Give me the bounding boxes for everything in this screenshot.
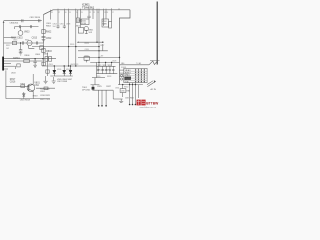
svg-text:R825: R825 bbox=[85, 56, 89, 58]
svg-text:R828: R828 bbox=[107, 76, 111, 78]
svg-text:TDA8361: TDA8361 bbox=[82, 6, 95, 10]
svg-text:R830: R830 bbox=[124, 87, 128, 89]
svg-text:Y IN: Y IN bbox=[125, 81, 129, 83]
svg-text:R813: R813 bbox=[85, 43, 89, 45]
svg-text:C812 R810: C812 R810 bbox=[30, 17, 41, 19]
svg-text:23: 23 bbox=[81, 12, 83, 14]
svg-text:R823: R823 bbox=[74, 64, 78, 66]
svg-text:BTTBW: BTTBW bbox=[146, 101, 159, 105]
svg-text:24: 24 bbox=[76, 12, 78, 14]
svg-text:C813: C813 bbox=[13, 40, 17, 42]
svg-text:TO AV: TO AV bbox=[136, 62, 142, 65]
svg-text:C816: C816 bbox=[10, 82, 16, 84]
svg-text:SAW: SAW bbox=[102, 22, 106, 25]
svg-text:22: 22 bbox=[89, 12, 91, 14]
svg-text:R812: R812 bbox=[6, 45, 10, 47]
svg-text:V806: V806 bbox=[66, 69, 70, 71]
svg-text:DPC801: DPC801 bbox=[82, 89, 91, 91]
svg-text:21: 21 bbox=[93, 12, 95, 14]
svg-text:104: 104 bbox=[53, 26, 56, 28]
svg-text:28: 28 bbox=[51, 12, 53, 14]
svg-text:V801: V801 bbox=[34, 82, 40, 84]
svg-text:C807 R808: C807 R808 bbox=[57, 81, 68, 83]
svg-text:R809: R809 bbox=[70, 44, 74, 46]
svg-text:C834: C834 bbox=[115, 88, 119, 90]
svg-text:www.bttbw.com.cn: www.bttbw.com.cn bbox=[140, 106, 156, 109]
svg-text:C818 R818: C818 R818 bbox=[20, 99, 31, 101]
svg-text:R806: R806 bbox=[25, 55, 31, 57]
svg-text:AC IN: AC IN bbox=[151, 88, 157, 91]
svg-text:SW801: SW801 bbox=[13, 57, 21, 59]
svg-text:20: 20 bbox=[97, 12, 99, 14]
svg-text:C826: C826 bbox=[85, 49, 89, 51]
svg-text:Z803: Z803 bbox=[49, 64, 53, 66]
svg-text:C808: C808 bbox=[66, 24, 70, 26]
svg-text:C818 R821: C818 R821 bbox=[40, 95, 51, 97]
svg-text:25: 25 bbox=[69, 12, 71, 14]
svg-text:KSC: KSC bbox=[34, 85, 39, 87]
svg-text:26: 26 bbox=[65, 12, 67, 14]
svg-text:C828: C828 bbox=[112, 61, 116, 63]
svg-text:R822 C819: R822 C819 bbox=[40, 99, 51, 101]
svg-text:102: 102 bbox=[6, 48, 9, 50]
svg-text:17: 17 bbox=[112, 12, 114, 14]
svg-text:47u 10u 4u7: 47u 10u 4u7 bbox=[98, 70, 109, 72]
svg-text:C805: C805 bbox=[60, 24, 64, 26]
svg-text:C813: C813 bbox=[32, 37, 38, 39]
svg-text:V803: V803 bbox=[24, 32, 30, 34]
svg-text:C809: C809 bbox=[43, 54, 49, 56]
svg-text:C806: C806 bbox=[35, 54, 41, 56]
svg-text:R802: R802 bbox=[46, 31, 52, 33]
svg-text:6.5M: 6.5M bbox=[82, 23, 87, 25]
svg-text:C831 C832 C833: C831 C832 C833 bbox=[97, 65, 112, 67]
svg-text:R811: R811 bbox=[25, 40, 29, 42]
svg-text:18: 18 bbox=[106, 12, 108, 14]
svg-text:C802: C802 bbox=[46, 38, 52, 40]
svg-text:C827: C827 bbox=[100, 45, 104, 47]
svg-text:C830: C830 bbox=[96, 76, 100, 78]
svg-text:V805: V805 bbox=[57, 69, 61, 71]
svg-text:27: 27 bbox=[58, 12, 60, 14]
svg-text:XS801: XS801 bbox=[121, 67, 126, 69]
